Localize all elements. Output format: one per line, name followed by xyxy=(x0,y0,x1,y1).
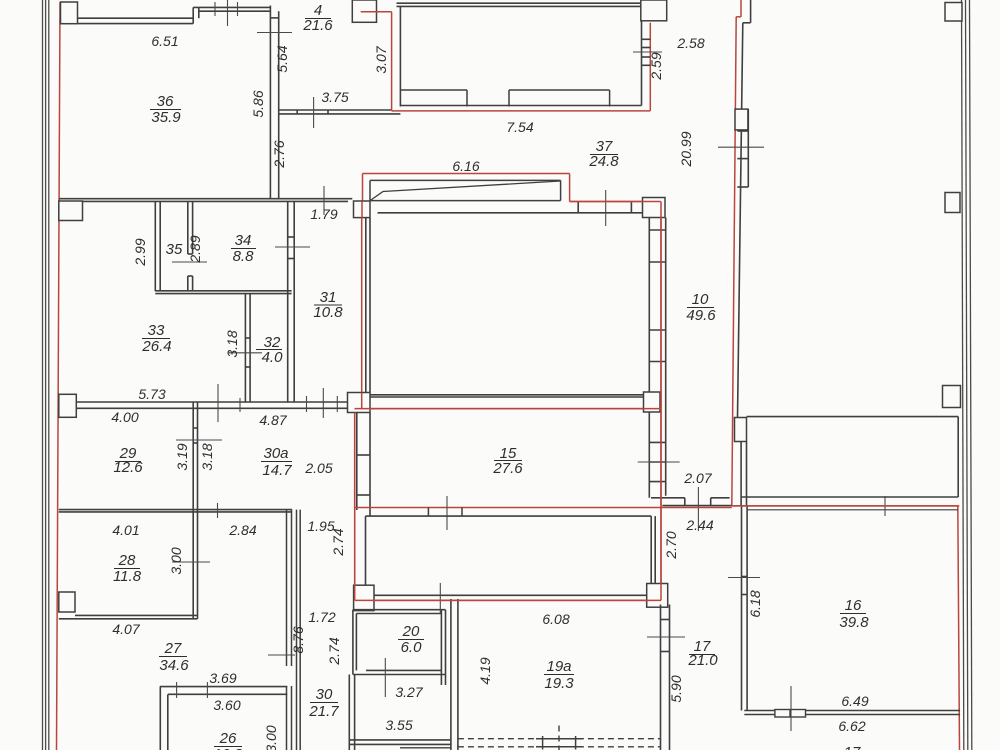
svg-text:3.27: 3.27 xyxy=(395,684,423,700)
wall below loggia (top of big center room) xyxy=(378,202,644,213)
room 16 inner top line xyxy=(747,509,958,511)
svg-text:5.73: 5.73 xyxy=(138,386,165,402)
corridor-10 left wall (window wall x=649..666) xyxy=(649,218,665,498)
svg-text:11.8: 11.8 xyxy=(113,568,142,585)
pilaster right wall y=192 xyxy=(945,193,960,213)
svg-text:14.7: 14.7 xyxy=(262,462,292,479)
stair shaft xyxy=(397,3,651,106)
svg-text:3.18: 3.18 xyxy=(224,330,240,357)
svg-text:36: 36 xyxy=(157,93,174,110)
svg-text:3.69: 3.69 xyxy=(209,670,236,686)
pilaster corridor-10 wall y=109 xyxy=(735,109,748,130)
room 28 bottom wall xyxy=(59,615,198,618)
corridor-10 right wall (window wall) xyxy=(737,0,750,418)
svg-text:6.49: 6.49 xyxy=(841,693,868,709)
room 20 walls xyxy=(353,610,446,685)
pilaster right wall y=385 xyxy=(943,386,961,408)
svg-text:8.76: 8.76 xyxy=(290,626,306,653)
svg-text:4.00: 4.00 xyxy=(111,409,138,425)
room 19 edge line bottom xyxy=(400,747,451,749)
dim 6.51 ticks xyxy=(215,0,238,26)
wall center-left (x=366..370) xyxy=(366,218,370,393)
shaft inner boxes xyxy=(400,90,609,107)
svg-text:39.8: 39.8 xyxy=(839,614,869,631)
loggia ramp line xyxy=(370,181,561,201)
room 4 bottom wall xyxy=(279,110,401,114)
corridor-10 right wall lower xyxy=(741,442,746,507)
svg-text:5.64: 5.64 xyxy=(274,45,290,72)
svg-text:49.6: 49.6 xyxy=(686,307,716,324)
wall room36 right (x=270..279) xyxy=(270,6,278,200)
red boundary apartment top (room4/shaft) xyxy=(361,0,665,111)
window box corridor-10 wall y=417 xyxy=(735,418,747,442)
dim tick 3.19/3.18 xyxy=(176,439,222,441)
window box room16 bottom wall xyxy=(775,710,806,718)
svg-text:2.74: 2.74 xyxy=(330,528,346,556)
svg-text:2.76: 2.76 xyxy=(271,140,287,168)
red room 15 top xyxy=(355,408,644,410)
svg-text:35: 35 xyxy=(166,241,183,258)
svg-text:8.8: 8.8 xyxy=(233,248,255,265)
loggia inner box xyxy=(370,180,561,200)
svg-text:35.9: 35.9 xyxy=(151,109,181,126)
svg-text:3.00: 3.00 xyxy=(263,725,279,750)
dim 4.87/2.05 line xyxy=(446,496,448,530)
dim 6.08/3.27 tick xyxy=(439,583,441,613)
room 36 top wall xyxy=(78,7,271,23)
thick wall x=287..302 lower xyxy=(287,510,301,750)
svg-text:2.44: 2.44 xyxy=(685,517,713,533)
room 36 bottom wall xyxy=(59,199,353,202)
dim tick x=606 xyxy=(605,190,607,226)
svg-text:6.08: 6.08 xyxy=(542,611,569,627)
svg-text:34.6: 34.6 xyxy=(159,657,189,674)
svg-text:20: 20 xyxy=(402,623,420,640)
pilaster right wall y=2 xyxy=(945,3,962,22)
svg-text:2.84: 2.84 xyxy=(228,522,256,538)
dim 3.75 tick xyxy=(313,97,315,128)
dim 2.07/2.44 line xyxy=(697,487,699,531)
pilaster corridor-10 left top xyxy=(643,198,666,218)
svg-text:21.0: 21.0 xyxy=(687,652,718,669)
red room (unlabeled) boundary bottom xyxy=(355,599,661,601)
svg-text:5.86: 5.86 xyxy=(250,90,266,117)
room 35 walls xyxy=(155,201,291,293)
pilaster left wall y=392 xyxy=(59,394,77,417)
svg-text:6.51: 6.51 xyxy=(151,33,178,49)
svg-text:30a: 30a xyxy=(263,445,288,462)
svg-text:4.19: 4.19 xyxy=(477,657,493,684)
red room 15 bottom xyxy=(355,507,732,509)
svg-text:4.0: 4.0 xyxy=(262,349,284,366)
red overlay lines (apartment boundary on top of pilasters) xyxy=(355,12,958,601)
strip room right of corridor-10 xyxy=(741,417,958,497)
wall between room30 and 19a (x=451..458) xyxy=(451,599,458,750)
svg-text:4.01: 4.01 xyxy=(112,522,139,538)
pilaster room4 right top xyxy=(352,0,376,22)
pilaster shaft top right xyxy=(641,0,667,21)
wall 34/32 right corridor31 left xyxy=(288,201,295,402)
dim tick y=462 xyxy=(638,461,680,463)
balcony door jambs xyxy=(536,736,582,750)
outer wall left (triple line) xyxy=(43,0,49,750)
room 15 left wall xyxy=(357,413,370,517)
pilaster room15 top-left xyxy=(348,393,371,413)
red boundary corridor-10 left xyxy=(660,218,662,601)
wall y=403 (rooms 33 bottom) xyxy=(59,402,348,408)
dim ticks room26 top xyxy=(177,682,208,698)
svg-text:1.79: 1.79 xyxy=(310,206,337,222)
svg-text:6.16: 6.16 xyxy=(452,158,479,174)
pilaster room15 top-right xyxy=(644,392,661,412)
svg-text:34: 34 xyxy=(235,232,252,249)
svg-text:6.62: 6.62 xyxy=(838,718,865,734)
room 30 bottom wall xyxy=(349,740,451,745)
svg-text:4.07: 4.07 xyxy=(112,621,140,637)
svg-text:3.75: 3.75 xyxy=(321,89,348,105)
svg-text:12.6: 12.6 xyxy=(113,459,143,476)
outer wall right (triple line) xyxy=(962,0,972,750)
svg-text:10.8: 10.8 xyxy=(213,746,243,750)
svg-text:6.0: 6.0 xyxy=(401,639,423,656)
svg-text:28: 28 xyxy=(118,552,136,569)
dim tick y=637 xyxy=(647,636,685,638)
corridor 30 left wall lower xyxy=(349,675,354,750)
svg-text:19.3: 19.3 xyxy=(544,675,574,692)
svg-text:17: 17 xyxy=(844,744,861,750)
red boundary left xyxy=(57,2,61,750)
svg-text:1.72: 1.72 xyxy=(308,609,335,625)
svg-text:26: 26 xyxy=(219,730,237,747)
red boundary corridor-10 right xyxy=(740,0,742,17)
dim 20.99 tick xyxy=(718,146,764,148)
svg-text:2.74: 2.74 xyxy=(326,637,342,665)
svg-text:27.6: 27.6 xyxy=(492,460,523,477)
room 26 walls xyxy=(160,687,287,750)
dim 1.79 tick xyxy=(323,186,325,215)
wall 2.07 with door xyxy=(651,498,732,506)
svg-text:24.8: 24.8 xyxy=(588,153,619,170)
red room16 top xyxy=(732,505,960,507)
dim tick y=247 xyxy=(275,246,310,248)
svg-text:2.59: 2.59 xyxy=(648,52,664,80)
svg-text:10: 10 xyxy=(692,291,709,308)
pilaster left wall y=592 xyxy=(59,592,75,612)
room 16 left wall xyxy=(742,506,748,711)
svg-text:4.87: 4.87 xyxy=(259,412,287,428)
svg-text:3.19: 3.19 xyxy=(174,443,190,470)
dim tick y=262 xyxy=(172,261,207,263)
svg-text:2.07: 2.07 xyxy=(683,470,712,486)
red room 15 left xyxy=(354,413,356,601)
pilaster top-left xyxy=(61,2,78,24)
svg-text:2.70: 2.70 xyxy=(663,531,679,559)
svg-text:19a: 19a xyxy=(546,658,571,675)
svg-text:7.54: 7.54 xyxy=(506,119,533,135)
dim 3.27 line xyxy=(384,658,386,697)
svg-text:21.7: 21.7 xyxy=(308,703,339,720)
dashed balcony line room 19a xyxy=(458,726,661,750)
svg-text:2.99: 2.99 xyxy=(132,238,148,266)
room 16 bottom wall xyxy=(744,711,960,715)
dim 2.59 tick xyxy=(633,51,662,53)
svg-text:21.6: 21.6 xyxy=(302,17,333,34)
room 32 left wall xyxy=(245,294,250,403)
red boundary center-left vertical xyxy=(361,218,363,393)
red room inner black box xyxy=(366,516,656,595)
pilaster red room bottom-right xyxy=(647,584,668,608)
svg-text:3.60: 3.60 xyxy=(213,697,240,713)
svg-text:10.8: 10.8 xyxy=(313,304,343,321)
svg-text:6.18: 6.18 xyxy=(747,590,763,617)
svg-text:20.99: 20.99 xyxy=(678,131,694,167)
svg-text:3.07: 3.07 xyxy=(373,45,389,73)
dim ticks on wall y=403 xyxy=(218,384,337,422)
pilaster below loggia left xyxy=(354,201,371,218)
dim tick 3.18 room32 xyxy=(228,352,262,354)
room 15 top wall xyxy=(370,395,644,397)
svg-text:27: 27 xyxy=(164,640,182,657)
svg-text:16: 16 xyxy=(845,597,862,614)
svg-text:2.89: 2.89 xyxy=(187,235,203,263)
pilaster left wall y=201 xyxy=(59,201,83,221)
svg-text:30: 30 xyxy=(316,686,333,703)
dim tick room16 left wall xyxy=(728,577,760,579)
svg-text:2.05: 2.05 xyxy=(304,460,332,476)
wall between 19a and 17 xyxy=(661,605,670,750)
svg-text:33: 33 xyxy=(148,322,165,339)
pilaster red room bottom-left xyxy=(354,585,374,610)
svg-text:26.4: 26.4 xyxy=(141,338,171,355)
svg-text:3.55: 3.55 xyxy=(385,717,412,733)
wall y=510 (29/30a bottom) xyxy=(59,510,292,512)
dim tick 3.00 xyxy=(172,561,210,563)
red boundary right lower xyxy=(958,506,960,750)
dim 6.49/6.62 line xyxy=(790,686,792,731)
dim tick y=655 xyxy=(268,654,295,656)
svg-text:5.90: 5.90 xyxy=(668,675,684,702)
wall 28/29 right (x=195..200) xyxy=(193,402,197,619)
dim tick on wall y=510 xyxy=(217,503,219,518)
svg-text:3.00: 3.00 xyxy=(168,547,184,574)
dim tick room16 top xyxy=(884,496,886,516)
svg-text:3.18: 3.18 xyxy=(199,443,215,470)
dim tick 5.86/5.64 xyxy=(257,32,292,34)
door jambs on room15 bottom wall xyxy=(428,508,462,517)
loggia red boundary (room 37) xyxy=(363,174,661,202)
svg-text:2.58: 2.58 xyxy=(676,35,704,51)
